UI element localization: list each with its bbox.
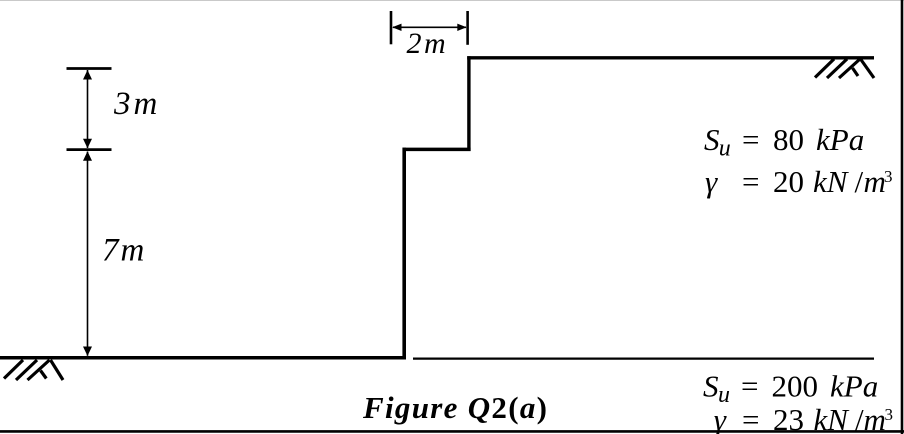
svg-text:=: = — [741, 369, 758, 404]
label Su = 80 kPa — [704, 122, 864, 161]
svg-text:kN: kN — [813, 164, 850, 199]
svg-text:S: S — [703, 369, 719, 404]
dimension 3m bottom tick — [67, 148, 112, 151]
bottom border — [0, 430, 904, 433]
svg-text:=: = — [742, 164, 759, 199]
upper ground surface line — [467, 56, 874, 59]
upper ground hatch — [815, 59, 874, 78]
dimension 7m line — [87, 152, 89, 356]
label gamma = 23 kN/m3 — [714, 402, 893, 434]
dimension 2m left arrowhead — [392, 24, 401, 31]
svg-text:7m: 7m — [102, 233, 146, 269]
dimension 2m right tick — [466, 11, 469, 45]
right border — [901, 0, 904, 434]
svg-text:=: = — [742, 402, 759, 434]
svg-text:20: 20 — [773, 164, 804, 199]
svg-text:kPa: kPa — [816, 122, 864, 157]
step bench — [403, 148, 471, 152]
svg-text:u: u — [719, 135, 731, 161]
svg-text:m: m — [864, 402, 886, 434]
dimension 2m arrow line — [393, 26, 466, 28]
top faint border — [0, 0, 904, 2]
svg-text:200: 200 — [772, 369, 819, 404]
dimension 2m left tick — [390, 11, 393, 44]
dimension 7m up arrowhead — [83, 151, 92, 161]
svg-text:2m: 2m — [407, 27, 449, 60]
dimension 7m down arrowhead — [83, 347, 92, 357]
dimension 2m right arrowhead — [457, 24, 466, 31]
svg-text:80: 80 — [773, 122, 804, 157]
step lower wall — [402, 148, 406, 359]
svg-text:/: / — [855, 164, 864, 199]
lower ground hatch — [4, 360, 63, 380]
svg-text:3: 3 — [884, 167, 893, 186]
svg-text:3m: 3m — [113, 86, 160, 122]
lower ground surface line — [0, 356, 406, 360]
label Su = 200 kPa — [703, 369, 878, 408]
soil boundary line lower right — [413, 358, 874, 360]
dimension 3m top tick — [67, 67, 112, 70]
svg-text:23: 23 — [773, 402, 804, 434]
svg-text:3: 3 — [885, 405, 894, 424]
svg-text:γ: γ — [714, 402, 727, 434]
dimension 3m down arrowhead — [83, 139, 92, 149]
svg-text:kPa: kPa — [830, 369, 878, 404]
svg-text:kN: kN — [814, 402, 851, 434]
svg-text:γ: γ — [705, 164, 718, 199]
dimension 3m up arrowhead — [83, 70, 92, 80]
svg-text:m: m — [864, 164, 886, 199]
svg-text:Figure Q2(a): Figure Q2(a) — [362, 390, 548, 425]
dimension 3m line — [87, 70, 89, 148]
label gamma = 20 kN/m3 — [705, 164, 893, 199]
svg-text:=: = — [742, 122, 759, 157]
step upper wall — [467, 56, 470, 151]
svg-text:S: S — [704, 122, 720, 157]
